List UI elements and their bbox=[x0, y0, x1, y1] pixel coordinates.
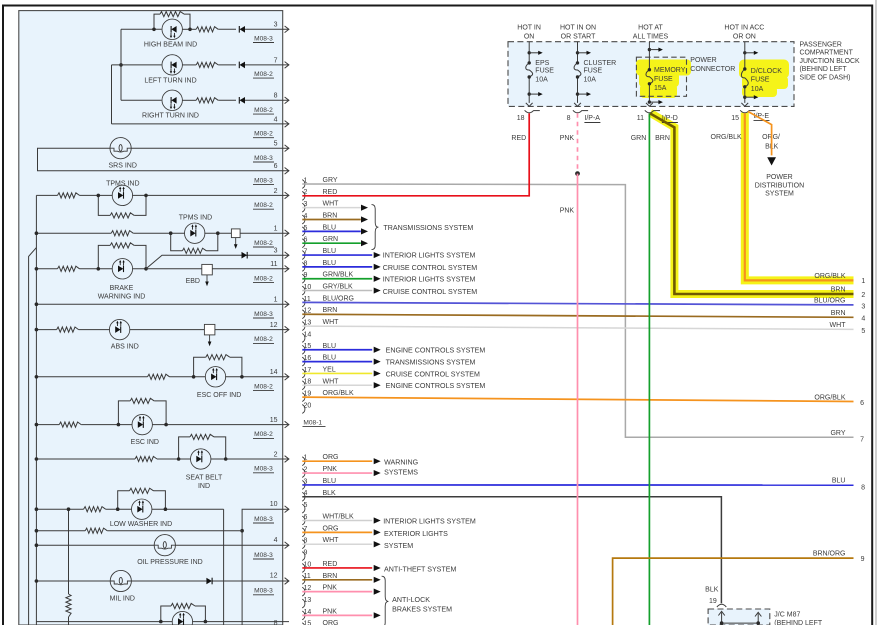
svg-text:15: 15 bbox=[731, 115, 739, 122]
fuse at x=577.5 bbox=[577, 42, 579, 63]
svg-text:POWER: POWER bbox=[766, 174, 792, 181]
svg-text:RED: RED bbox=[323, 189, 338, 196]
connector group2 pin 4 bbox=[302, 492, 305, 501]
node bus tpms2 bbox=[35, 231, 39, 235]
svg-text:FUSE: FUSE bbox=[751, 77, 770, 84]
box connector small TPMS row bbox=[231, 229, 240, 238]
connector M08-1 pin 13 bbox=[302, 322, 305, 331]
wire YEL pin17 bbox=[302, 372, 372, 374]
svg-text:M08-3: M08-3 bbox=[254, 35, 273, 42]
svg-text:3: 3 bbox=[274, 22, 278, 29]
svg-text:BRN: BRN bbox=[323, 573, 338, 580]
svg-text:2: 2 bbox=[274, 451, 278, 458]
arrow down fuse output bbox=[526, 103, 533, 106]
svg-text:7: 7 bbox=[860, 437, 864, 444]
box EBD bbox=[202, 264, 213, 275]
svg-text:10A: 10A bbox=[535, 77, 548, 84]
svg-text:5: 5 bbox=[274, 141, 278, 148]
svg-text:8: 8 bbox=[274, 620, 278, 625]
svg-text:ORG: ORG bbox=[323, 454, 339, 461]
diode MIL row bbox=[206, 578, 212, 585]
svg-text:GRY/BLK: GRY/BLK bbox=[323, 284, 354, 291]
node bottom left bbox=[159, 620, 163, 624]
node high beam right bbox=[188, 28, 192, 32]
svg-text:(BEHIND LEFT: (BEHIND LEFT bbox=[774, 620, 823, 625]
svg-text:BLU: BLU bbox=[323, 248, 337, 255]
svg-text:CLUSTER: CLUSTER bbox=[584, 60, 617, 67]
svg-text:CRUISE CONTROL SYSTEM: CRUISE CONTROL SYSTEM bbox=[383, 264, 477, 272]
svg-text:GRN/BLK: GRN/BLK bbox=[323, 272, 354, 279]
connector cup below fuse bbox=[645, 110, 654, 113]
svg-text:IND: IND bbox=[198, 483, 210, 490]
svg-text:EPS: EPS bbox=[535, 60, 549, 67]
connector group2 pin 15 bbox=[302, 623, 305, 625]
svg-text:15: 15 bbox=[270, 417, 278, 424]
svg-text:ALL TIMES: ALL TIMES bbox=[633, 33, 669, 40]
svg-text:ABS IND: ABS IND bbox=[111, 343, 139, 350]
wire TPMS IND row 2 bbox=[36, 232, 111, 234]
pin 8 M08-2 arrow bbox=[285, 97, 289, 104]
wire BLU pin8 bbox=[302, 266, 372, 268]
fuse element bbox=[526, 63, 533, 77]
resistor parallel above SEAT BELT LED bbox=[179, 437, 190, 459]
svg-text:BRN: BRN bbox=[323, 307, 338, 314]
arrow up J/C second bbox=[757, 614, 759, 624]
resistor parallel below TPMS LED 2 bbox=[171, 233, 183, 251]
node high beam left bbox=[152, 28, 156, 32]
pin 11 M08-2 arrow bbox=[285, 266, 289, 273]
svg-text:1: 1 bbox=[274, 297, 278, 304]
svg-text:(BEHIND LEFT: (BEHIND LEFT bbox=[800, 66, 848, 73]
resistor parallel above bottom LED bbox=[161, 606, 171, 622]
svg-text:14: 14 bbox=[270, 369, 278, 376]
node bus2 lowwasher bbox=[67, 507, 71, 511]
LED SEAT BELT IND bbox=[191, 449, 211, 469]
resistor parallel above ESC OFF LED bbox=[194, 357, 206, 377]
svg-text:INTERIOR LIGHTS SYSTEM: INTERIOR LIGHTS SYSTEM bbox=[383, 252, 476, 260]
node bus lowwasher bbox=[35, 507, 39, 511]
connector M08-1 pin 2 bbox=[302, 191, 305, 200]
svg-text:TPMS IND: TPMS IND bbox=[106, 180, 139, 187]
svg-text:M08-2: M08-2 bbox=[254, 107, 273, 114]
svg-text:BLU: BLU bbox=[323, 355, 337, 362]
svg-text:2: 2 bbox=[274, 188, 278, 195]
svg-text:13: 13 bbox=[304, 597, 312, 604]
svg-text:MEMORY: MEMORY bbox=[654, 67, 686, 74]
node bus mil bbox=[35, 579, 39, 583]
wire ORG/BLK branch to power distribution bbox=[748, 112, 772, 156]
svg-text:M08-3: M08-3 bbox=[254, 177, 273, 184]
svg-text:WARNING IND: WARNING IND bbox=[98, 293, 146, 300]
svg-text:2: 2 bbox=[861, 292, 865, 299]
svg-text:M08-3: M08-3 bbox=[254, 155, 273, 162]
connector group2 pin 6 bbox=[302, 516, 305, 525]
svg-text:M08-3: M08-3 bbox=[254, 588, 273, 595]
resistor parallel below TPMS LED 1 bbox=[98, 195, 110, 215]
svg-text:SYSTEM: SYSTEM bbox=[384, 542, 413, 550]
wire RED g2 pin10 bbox=[302, 567, 372, 569]
connector M08-1 pin 15 bbox=[302, 345, 305, 354]
svg-text:GRY: GRY bbox=[830, 430, 845, 437]
connector M08-1 pin 16 bbox=[302, 357, 305, 366]
svg-text:BRAKES SYSTEM: BRAKES SYSTEM bbox=[392, 605, 452, 613]
svg-text:JUNCTION BLOCK: JUNCTION BLOCK bbox=[800, 58, 861, 65]
LED TPMS IND 1 bbox=[112, 185, 132, 205]
node seatbelt right bbox=[224, 457, 228, 461]
wire WHT/BLK g2 pin6 bbox=[302, 520, 372, 522]
svg-text:CRUISE CONTROL SYSTEM: CRUISE CONTROL SYSTEM bbox=[383, 288, 477, 296]
wire HIGH BEAM row bbox=[121, 28, 162, 30]
connector cup below fuse bbox=[525, 110, 534, 113]
svg-text:BLK: BLK bbox=[323, 490, 337, 497]
wire BRN pin4 bbox=[302, 219, 361, 221]
connector group2 pin 2 bbox=[302, 469, 305, 478]
svg-text:WARNING: WARNING bbox=[384, 459, 418, 467]
LED ESC IND bbox=[132, 414, 152, 434]
wire ESC OFF row bbox=[36, 376, 147, 378]
highlight band BRN wire bbox=[650, 113, 853, 294]
svg-text:BLU/ORG: BLU/ORG bbox=[814, 298, 846, 305]
svg-text:TRANSMISSIONS SYSTEM: TRANSMISSIONS SYSTEM bbox=[383, 224, 473, 232]
svg-text:ON: ON bbox=[524, 33, 535, 40]
svg-text:LEFT TURN IND: LEFT TURN IND bbox=[144, 77, 196, 84]
svg-text:J/C M87: J/C M87 bbox=[774, 611, 800, 618]
svg-text:HOT IN ON: HOT IN ON bbox=[560, 24, 596, 31]
svg-text:BLU/ORG: BLU/ORG bbox=[323, 295, 355, 302]
svg-text:M08-2: M08-2 bbox=[254, 240, 273, 247]
connector group2 pin 1 bbox=[302, 457, 305, 466]
wire GRN/BLK pin9 bbox=[302, 278, 372, 280]
arrow up J/C pin19 bbox=[721, 613, 723, 624]
svg-text:GRN: GRN bbox=[631, 135, 647, 142]
node escoff left bbox=[192, 375, 196, 379]
svg-text:WHT: WHT bbox=[323, 537, 340, 544]
svg-text:6: 6 bbox=[274, 163, 278, 170]
arrowhead power distribution bbox=[767, 157, 776, 165]
connector M08-1 pin 9 bbox=[302, 274, 305, 283]
svg-text:BRN: BRN bbox=[655, 135, 670, 142]
svg-text:RED: RED bbox=[511, 135, 526, 142]
wire SRS loop bbox=[131, 147, 289, 149]
svg-text:CONNECTOR: CONNECTOR bbox=[690, 66, 735, 73]
wire BRN from MEMORY fuse to right edge pin 2 bbox=[650, 113, 854, 294]
svg-text:SEAT BELT: SEAT BELT bbox=[186, 475, 223, 482]
pin 7 M08-2 arrow bbox=[285, 62, 289, 69]
brace transmissions system bbox=[372, 205, 379, 250]
node bus seatbelt bbox=[35, 457, 39, 461]
highlight band ORG/BLK wire bbox=[745, 113, 854, 281]
diode RIGHT TURN row bbox=[239, 97, 245, 104]
wire WHT g2 pin8 bbox=[302, 543, 372, 545]
resistor series ESC row bbox=[59, 422, 81, 427]
svg-text:TPMS IND: TPMS IND bbox=[179, 214, 212, 221]
svg-text:19: 19 bbox=[709, 598, 717, 605]
node junction left turn bus bbox=[119, 63, 123, 67]
svg-text:PNK: PNK bbox=[560, 207, 575, 214]
node esc right bbox=[164, 423, 168, 427]
svg-text:INTERIOR LIGHTS SYSTEM: INTERIOR LIGHTS SYSTEM bbox=[383, 276, 476, 284]
wire OIL PRESSURE row bbox=[36, 544, 154, 546]
pin 6 M08-3 arrow bbox=[285, 168, 289, 175]
LED ESC OFF IND bbox=[205, 367, 225, 387]
pin 10 M08-3 arrow bbox=[285, 506, 289, 513]
svg-text:BRAKE: BRAKE bbox=[110, 285, 134, 292]
connector cup below fuse bbox=[740, 110, 749, 113]
wire BLU pin16 bbox=[302, 361, 372, 363]
wire WHT pin13 to right edge pin 5 bbox=[302, 326, 853, 329]
wire WHT pin3 bbox=[302, 207, 361, 209]
svg-text:7: 7 bbox=[274, 57, 278, 64]
wire BLU g2 pin3 to right edge pin 8 bbox=[302, 484, 853, 486]
brace anti-lock brakes bbox=[382, 576, 389, 625]
svg-text:8: 8 bbox=[567, 115, 571, 122]
svg-text:OR START: OR START bbox=[561, 33, 596, 40]
connector M08-1 pin 17 bbox=[302, 369, 305, 378]
arrow down fuse output bbox=[574, 103, 581, 106]
resistor vertical on bus2 bbox=[66, 594, 71, 617]
svg-text:4: 4 bbox=[861, 316, 865, 323]
node tpms2 left bbox=[169, 231, 173, 235]
wire row pin 4 bbox=[112, 123, 290, 125]
connector group2 pin 13 bbox=[302, 599, 305, 608]
svg-text:11: 11 bbox=[270, 261, 277, 268]
svg-text:ESC IND: ESC IND bbox=[131, 439, 159, 446]
node tpms1 right bbox=[144, 194, 148, 198]
wire MIL row bbox=[36, 580, 110, 582]
fuse at x=529.2 bbox=[528, 42, 530, 63]
svg-text:HOT IN: HOT IN bbox=[517, 24, 541, 31]
node esc left bbox=[117, 423, 121, 427]
svg-text:15A: 15A bbox=[654, 85, 667, 92]
svg-text:HOT AT: HOT AT bbox=[638, 24, 663, 31]
svg-text:CRUISE CONTROL SYSTEM: CRUISE CONTROL SYSTEM bbox=[386, 370, 480, 378]
svg-text:ORG: ORG bbox=[323, 525, 339, 532]
svg-text:SIDE OF DASH): SIDE OF DASH) bbox=[800, 74, 851, 81]
svg-text:HOT IN ACC: HOT IN ACC bbox=[724, 24, 764, 31]
arrow down below ABS box bbox=[209, 335, 211, 343]
resistor series BRAKE row bbox=[58, 266, 80, 271]
node bus escoff bbox=[35, 375, 39, 379]
connector group2 pin 14 bbox=[302, 611, 305, 620]
resistor series lone row bbox=[85, 528, 107, 533]
arrow down below EBD box bbox=[206, 275, 208, 283]
wire BRAKE WARNING row bbox=[36, 268, 57, 270]
connector cup below fuse bbox=[573, 110, 582, 113]
svg-text:OR ON: OR ON bbox=[733, 33, 756, 40]
resistor series SEAT BELT row bbox=[135, 456, 157, 461]
svg-text:3: 3 bbox=[861, 303, 865, 310]
resistor series TPMS row2 bbox=[111, 231, 133, 236]
pin 3 M08-3 arrow bbox=[285, 26, 289, 33]
fuse at x=744.8 bbox=[744, 42, 746, 69]
svg-text:BLU: BLU bbox=[832, 478, 846, 485]
svg-text:FUSE: FUSE bbox=[654, 76, 673, 83]
svg-text:PASSENGER: PASSENGER bbox=[800, 42, 842, 49]
svg-text:I/P-A: I/P-A bbox=[584, 115, 600, 122]
svg-text:EBD: EBD bbox=[186, 278, 200, 285]
svg-text:INTERIOR LIGHTS SYSTEM: INTERIOR LIGHTS SYSTEM bbox=[383, 517, 476, 525]
svg-text:WHT/BLK: WHT/BLK bbox=[323, 514, 354, 521]
wire GRN pin6 bbox=[302, 242, 361, 244]
fuse element bbox=[646, 70, 653, 84]
node escoff right bbox=[240, 375, 244, 379]
svg-text:SRS IND: SRS IND bbox=[108, 162, 136, 169]
svg-text:SYSTEMS: SYSTEMS bbox=[384, 468, 418, 476]
svg-text:ENGINE CONTROLS SYSTEM: ENGINE CONTROLS SYSTEM bbox=[386, 347, 486, 355]
node bus row1 bbox=[35, 302, 39, 306]
connector M08-1 pin 10 bbox=[302, 286, 305, 295]
resistor parallel above ESC LED bbox=[118, 401, 130, 425]
svg-text:PNK: PNK bbox=[323, 466, 338, 473]
wire inside J/C bbox=[722, 622, 759, 624]
wire SEAT BELT row bbox=[36, 458, 135, 460]
wire PNK g2 pin14 bbox=[302, 614, 372, 616]
svg-text:9: 9 bbox=[861, 556, 865, 563]
node tpms1 left bbox=[97, 194, 101, 198]
LED BRAKE WARNING IND bbox=[112, 259, 132, 279]
svg-text:ENGINE CONTROLS SYSTEM: ENGINE CONTROLS SYSTEM bbox=[386, 382, 486, 390]
svg-text:M08-2: M08-2 bbox=[254, 336, 273, 343]
wire PNK solid down bbox=[577, 174, 579, 625]
node bus esc bbox=[35, 423, 39, 427]
lamp MIL IND bbox=[110, 570, 131, 591]
bus vertical 2 (x=111.5) left-turn to row4 bbox=[111, 65, 113, 124]
wire RIGHT TURN row bbox=[121, 99, 162, 101]
wire TPMS IND row 1 bbox=[36, 194, 57, 196]
connector M08-1 pin 19 bbox=[302, 393, 305, 402]
svg-text:12: 12 bbox=[270, 573, 278, 580]
wire PNK g2 pin12 bbox=[302, 591, 372, 593]
arrow down fuse output bbox=[646, 103, 653, 106]
node bottom right bbox=[204, 620, 208, 624]
wire BLU pin5 bbox=[302, 230, 361, 232]
wire BLK g2 pin4 to J/C M87 bbox=[302, 497, 721, 603]
pin 15 M08-2 arrow bbox=[285, 421, 289, 428]
svg-text:DISTRIBUTION: DISTRIBUTION bbox=[755, 182, 804, 189]
svg-text:10A: 10A bbox=[751, 86, 764, 93]
svg-text:BRN/ORG: BRN/ORG bbox=[813, 551, 846, 558]
connector M08-1 pin 8 bbox=[302, 262, 305, 271]
connector group2 pin 12 bbox=[302, 587, 305, 596]
svg-text:M08-2: M08-2 bbox=[254, 275, 273, 282]
node pin10 resistor junction bbox=[240, 529, 244, 533]
wire ORG/BLK pin19 to right edge pin 6 bbox=[302, 397, 853, 401]
svg-text:14: 14 bbox=[304, 331, 312, 338]
node brake left bbox=[97, 267, 101, 271]
pin 1 M08-2 arrow bbox=[285, 230, 289, 237]
svg-text:RIGHT TURN IND: RIGHT TURN IND bbox=[142, 113, 199, 120]
wire RED pin2 to fuse EPS bbox=[302, 113, 529, 196]
svg-text:ORG/BLK: ORG/BLK bbox=[814, 273, 845, 280]
node brake right bbox=[144, 267, 148, 271]
svg-text:18: 18 bbox=[517, 115, 525, 122]
wire WHT pin18 bbox=[302, 384, 372, 386]
svg-text:RED: RED bbox=[323, 561, 338, 568]
svg-text:3: 3 bbox=[274, 248, 278, 255]
connector M08-1 pin 12 bbox=[302, 310, 305, 319]
svg-text:M08-3: M08-3 bbox=[254, 516, 273, 523]
svg-text:ESC OFF IND: ESC OFF IND bbox=[197, 392, 241, 399]
LED bottom indicator bbox=[172, 611, 192, 625]
svg-text:5: 5 bbox=[304, 502, 308, 509]
svg-text:BLU: BLU bbox=[323, 343, 337, 350]
svg-text:BLK: BLK bbox=[705, 587, 719, 594]
resistor series LOW WASHER row bbox=[84, 507, 106, 512]
connector M08-1 pin 1 bbox=[302, 180, 305, 189]
svg-text:PNK: PNK bbox=[560, 135, 575, 142]
svg-text:BLU: BLU bbox=[323, 478, 337, 485]
wire ABS row bbox=[36, 329, 56, 331]
resistor series TPMS row1 bbox=[58, 193, 80, 198]
svg-text:EXTERIOR LIGHTS: EXTERIOR LIGHTS bbox=[384, 530, 448, 538]
svg-text:M08-2: M08-2 bbox=[254, 202, 273, 209]
connector M08-1 pin 11 bbox=[302, 298, 305, 307]
bus vertical main (x=36.4) bbox=[35, 195, 37, 625]
svg-text:GRY: GRY bbox=[323, 177, 338, 184]
svg-text:ORG: ORG bbox=[323, 620, 339, 625]
connector group2 pin 9 bbox=[302, 552, 305, 561]
node lowwasher right bbox=[164, 507, 168, 511]
node bus abs bbox=[35, 328, 39, 332]
resistor series HIGH BEAM row bbox=[196, 27, 218, 32]
svg-text:POWER: POWER bbox=[690, 57, 716, 64]
pin 3 arrow (brake branch) bbox=[285, 252, 289, 259]
resistor series LEFT TURN row bbox=[196, 62, 218, 67]
wire drop from LOW WASHER row bbox=[223, 509, 225, 625]
svg-text:10A: 10A bbox=[584, 77, 597, 84]
svg-text:M08-3: M08-3 bbox=[254, 552, 273, 559]
svg-text:9: 9 bbox=[304, 549, 308, 556]
node PNK junction bbox=[575, 171, 580, 176]
connector M08-1 pin 20 bbox=[302, 405, 305, 414]
diode HIGH BEAM row bbox=[239, 26, 245, 33]
connector group2 pin 5 bbox=[302, 504, 305, 513]
wire LEFT TURN row bbox=[112, 64, 162, 66]
resistor parallel above BRAKE LED bbox=[98, 245, 110, 268]
connector M08-1 pin 18 bbox=[302, 381, 305, 390]
fuse element bbox=[574, 63, 581, 77]
connector group2 pin 8 bbox=[302, 540, 305, 549]
wire BRN g2 pin11 bbox=[302, 579, 372, 581]
resistor series ESC OFF row bbox=[148, 374, 170, 379]
svg-text:WHT: WHT bbox=[323, 319, 340, 326]
svg-text:HIGH BEAM IND: HIGH BEAM IND bbox=[144, 41, 197, 48]
svg-text:PNK: PNK bbox=[323, 608, 338, 615]
fuse at x=649.4 bbox=[648, 42, 650, 70]
svg-text:ORG/BLK: ORG/BLK bbox=[814, 394, 845, 401]
wire ORG/BLK from D/CLOCK fuse to right edge pin 1 bbox=[745, 113, 854, 280]
svg-text:ANTI-THEFT SYSTEM: ANTI-THEFT SYSTEM bbox=[384, 566, 456, 574]
LED HIGH BEAM IND bbox=[162, 19, 182, 39]
svg-text:10: 10 bbox=[270, 501, 278, 508]
svg-text:M08-1: M08-1 bbox=[303, 419, 322, 426]
cup J/C M87 pin 19 bbox=[717, 604, 726, 607]
wire GRY pin1 to corner and right edge pin 7 bbox=[302, 184, 853, 437]
svg-text:SYSTEM: SYSTEM bbox=[765, 191, 794, 198]
pin 4 M08-2 arrow bbox=[285, 121, 289, 128]
wire GRN from MEMORY fuse down bbox=[648, 113, 650, 625]
pin 5 M08-3 arrow bbox=[285, 145, 289, 152]
svg-text:ORG/BLK: ORG/BLK bbox=[711, 134, 742, 141]
resistor parallel above LOW WASHER LED bbox=[118, 491, 130, 509]
wire BLU pin7 bbox=[302, 254, 372, 256]
svg-text:WHT: WHT bbox=[323, 378, 340, 385]
connector M08-1 pin 4 bbox=[302, 215, 305, 224]
svg-text:PNK: PNK bbox=[323, 585, 338, 592]
svg-text:20: 20 bbox=[304, 402, 312, 409]
lamp OIL PRESSURE IND bbox=[154, 535, 175, 556]
connector group2 pin 11 bbox=[302, 575, 305, 584]
